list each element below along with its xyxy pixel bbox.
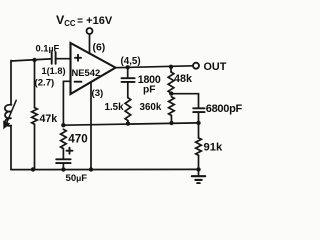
terminal OUT circle <box>193 63 199 69</box>
capacitor C2 50uF plates <box>56 159 70 163</box>
label 0.1uF <box>36 44 60 54</box>
label 48k <box>174 73 193 85</box>
node F junction 48k / 360k / 6800pF tap <box>169 91 173 95</box>
op-amp plus input symbol <box>75 55 81 61</box>
capacitor C3 1800pF plates <box>122 78 135 82</box>
svg-text:48k: 48k <box>174 73 193 85</box>
resistor R4 48k <box>168 72 174 93</box>
label Vcc = +16V <box>56 13 113 28</box>
label 1800 pF <box>138 74 161 96</box>
resistor R2 470 <box>61 129 67 148</box>
node J junction rail / 50uF <box>61 167 65 171</box>
wire 50uF to ground rail <box>62 163 64 169</box>
op-amp minus input symbol <box>75 81 82 83</box>
label 470 <box>68 133 87 146</box>
wire feedback node row <box>63 123 198 125</box>
variable inductor arrow <box>3 100 16 129</box>
node I junction rail / 47k <box>31 167 35 171</box>
label 50uF <box>66 173 88 184</box>
wire 0.1uF cap to op-amp noninverting input <box>56 58 71 60</box>
resistor R6 91k <box>196 138 202 155</box>
wire top input (left rail corner to 0.1uF cap) <box>11 59 51 61</box>
svg-text:1.5k: 1.5k <box>105 102 125 113</box>
svg-text:50μF: 50μF <box>66 173 88 184</box>
svg-text:6800pF: 6800pF <box>206 103 243 115</box>
wire 1800pF to 1.5k <box>127 82 129 98</box>
variable inductor L1 (cartridge) coil <box>5 105 12 126</box>
wire 470 to 50uF cap <box>62 149 64 159</box>
wire output to 48k <box>170 67 172 72</box>
label 360k <box>140 102 162 113</box>
label 1.5k <box>105 102 125 113</box>
wire left rail upper segment <box>10 61 12 106</box>
wire 47k branch lower <box>34 124 36 169</box>
wire output (apex to OUT terminal) <box>116 66 193 68</box>
node A junction top input / 47k <box>32 58 36 62</box>
wire tap to 6800pF (horizontal then down) <box>171 94 198 108</box>
svg-text:470: 470 <box>68 133 87 146</box>
label 91k <box>204 142 223 154</box>
capacitor C2 50uF polarized plus sign <box>67 148 73 154</box>
node G junction row / 360k <box>169 121 173 125</box>
label pin (2.7) <box>35 78 55 89</box>
svg-text:(4,5): (4,5) <box>121 56 141 67</box>
svg-text:1(1.8): 1(1.8) <box>42 66 66 76</box>
wire pin 3 (op-amp bottom edge to ground rail) <box>90 83 92 170</box>
wire pin 6 (Vcc to op-amp top edge) <box>89 34 91 54</box>
resistor R3 1.5k <box>125 98 131 121</box>
wire output to 1800pF <box>127 67 129 77</box>
svg-text:360k: 360k <box>140 102 162 113</box>
wire inverting input down to feedback node <box>62 81 64 125</box>
capacitor C4 6800pF plates <box>193 108 204 112</box>
wire 6800pF to feedback row <box>198 112 200 123</box>
resistor R1 47k <box>32 108 38 125</box>
label pin (3) <box>92 88 104 99</box>
svg-text:OUT: OUT <box>204 61 227 73</box>
label NE542 <box>72 67 101 78</box>
wire bottom ground rail <box>11 168 199 170</box>
label pin (4,5) <box>121 56 141 67</box>
capacitor C1 0.1uF plates <box>52 52 56 64</box>
wire 91k upper <box>198 123 200 138</box>
label pin 1(1.8) <box>42 66 66 76</box>
label 47k <box>40 113 58 125</box>
label 6800pF <box>206 103 243 115</box>
node E junction output / 48k branch <box>169 65 173 69</box>
wire 47k branch upper <box>34 60 36 108</box>
svg-text:(2.7): (2.7) <box>35 78 55 89</box>
wire 360k to feedback row <box>170 115 172 123</box>
wire 1.5k to feedback row <box>127 121 129 124</box>
svg-text:NE542: NE542 <box>72 67 101 78</box>
ground symbol <box>192 169 205 183</box>
label OUT <box>204 61 227 73</box>
wire left rail lower segment <box>10 126 12 170</box>
label pin (6) <box>93 43 106 54</box>
svg-text:VCC=+16V: VCC=+16V <box>56 13 113 28</box>
node K junction rail / pin 3 <box>89 167 93 171</box>
svg-text:pF: pF <box>143 85 155 96</box>
resistor R5 360k <box>169 97 175 116</box>
node D junction row / 1.5k <box>126 121 130 125</box>
svg-text:47k: 47k <box>40 113 58 125</box>
op-amp U1 NE542 triangle <box>71 43 116 94</box>
node H junction row / 6800pF / 91k <box>196 121 200 125</box>
terminal Vcc circle <box>87 28 93 34</box>
svg-text:0.1μF: 0.1μF <box>36 44 60 54</box>
node B junction feedback row / 470 <box>61 123 65 127</box>
svg-text:(6): (6) <box>93 43 106 54</box>
svg-text:(3): (3) <box>92 88 104 99</box>
node C junction output / 1800pF branch <box>126 65 130 69</box>
wire 91k to ground rail <box>198 155 200 169</box>
svg-text:91k: 91k <box>204 142 223 154</box>
wire inverting input stub <box>63 80 70 82</box>
node L junction rail / 91k / ground <box>196 167 200 171</box>
